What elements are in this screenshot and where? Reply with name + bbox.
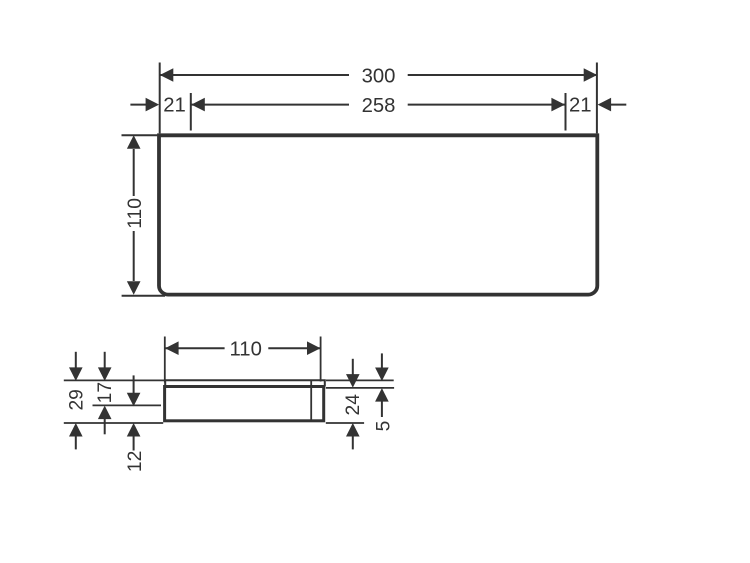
dimension line 110 (side view) xyxy=(165,347,320,349)
extension line inner-left (258 dim) xyxy=(190,93,192,131)
extension line y380 (top of lip level) xyxy=(64,379,165,381)
side view body outline xyxy=(165,387,324,421)
arrow 110 top xyxy=(127,135,141,149)
extension line inner-right (258 dim) xyxy=(565,93,567,131)
tick line bottom (110 dim) xyxy=(122,295,165,297)
dimension 110 vertical (front view) xyxy=(133,149,135,281)
arrow 300 right xyxy=(584,68,598,82)
shelf front view outline xyxy=(159,135,597,294)
svg-text:110: 110 xyxy=(230,339,262,361)
dimension 21 left: tail and arrow xyxy=(130,98,159,112)
extension line y405 (17/12 split) xyxy=(93,404,162,406)
svg-text:17: 17 xyxy=(95,382,116,403)
extension line y423 (bottom) xyxy=(64,422,163,424)
svg-text:12: 12 xyxy=(125,451,146,472)
svg-text:21: 21 xyxy=(163,95,186,117)
svg-text:110: 110 xyxy=(125,198,146,229)
arrow 300 left xyxy=(160,68,174,82)
arrow 258 left xyxy=(191,98,205,112)
svg-text:24: 24 xyxy=(343,394,364,416)
tick line top (110 dim) xyxy=(122,134,158,136)
dimension 5 column xyxy=(375,353,389,417)
svg-text:258: 258 xyxy=(362,95,396,117)
side view inner wall line xyxy=(310,380,312,421)
dimension 12 column xyxy=(127,375,141,450)
dimension line 258 xyxy=(192,104,565,106)
arrow 110 bottom xyxy=(127,281,141,295)
extension line left (110 side dim) xyxy=(164,337,166,383)
extension line right (300 dim) xyxy=(596,63,598,134)
svg-text:29: 29 xyxy=(67,389,88,410)
dimension 17 column xyxy=(98,352,112,435)
dimension 29 column xyxy=(69,352,83,450)
arrow 258 right xyxy=(551,98,565,112)
svg-text:300: 300 xyxy=(362,65,396,87)
extension line A right (lip top) xyxy=(326,379,394,381)
side view glass lip outline xyxy=(165,380,325,386)
extension line B right (body top) xyxy=(326,387,394,389)
dimension 24 column xyxy=(346,359,360,450)
svg-text:21: 21 xyxy=(569,95,592,117)
arrow 110 side left xyxy=(165,341,179,355)
extension line bottom right xyxy=(326,422,364,424)
extension line right (110 side dim) xyxy=(320,337,322,382)
svg-text:5: 5 xyxy=(374,421,395,432)
arrow 110 side right xyxy=(307,341,321,355)
extension line left (300 dim) xyxy=(159,63,161,134)
dimension line 300 xyxy=(160,74,597,76)
dimension 21 right: tail and arrow xyxy=(598,98,627,112)
